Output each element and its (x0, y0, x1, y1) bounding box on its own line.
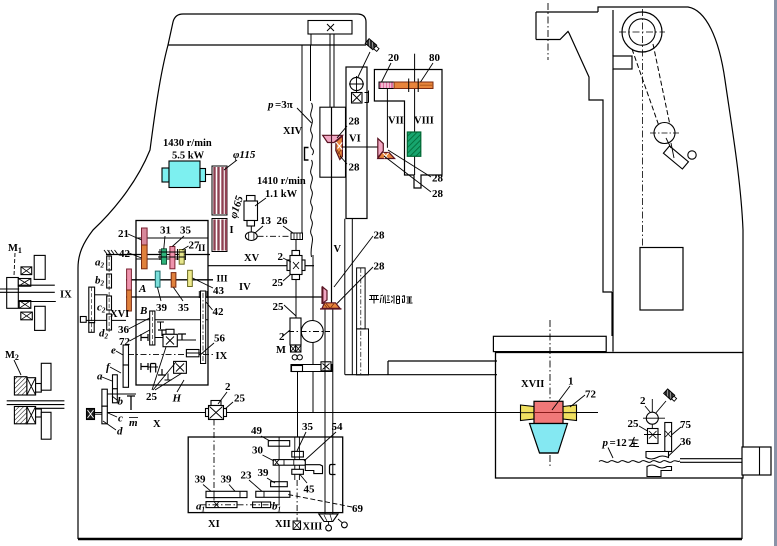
gear 31 green on II (162, 249, 167, 264)
bevel pair VII (378, 139, 395, 159)
gear 26 (291, 233, 303, 240)
svg-text:39: 39 (221, 474, 233, 486)
svg-text:5.5 kW: 5.5 kW (172, 151, 205, 162)
arm 45 to hook (305, 465, 322, 474)
gear B orange on XVI (127, 290, 132, 311)
svg-text:25: 25 (146, 391, 158, 403)
feed select gear bars e f a b c d (102, 345, 129, 424)
XI axis vertical (213, 420, 215, 506)
svg-text:2: 2 (278, 251, 284, 263)
table slide bar right (345, 361, 497, 375)
bevel pair VI (XIV screw drive) (323, 135, 343, 159)
shaft down from clutch to M (295, 280, 297, 319)
svg-text:36: 36 (680, 436, 692, 448)
svg-text:39: 39 (195, 474, 207, 486)
label IX dash line (128, 354, 213, 356)
svg-text:XII: XII (275, 519, 291, 530)
crank handle (662, 143, 697, 170)
svg-text:31: 31 (160, 225, 171, 237)
svg-text:B: B (139, 305, 147, 317)
XI gear bar 39/39 (206, 491, 247, 497)
svg-text:VI: VI (349, 134, 361, 145)
svg-text:XIII: XIII (303, 522, 323, 533)
clutch M2 detail left (14, 363, 51, 439)
svg-text:28: 28 (374, 230, 386, 242)
svg-text:80: 80 (429, 52, 441, 64)
VIII shaft vertical (414, 54, 416, 132)
machine head top band (168, 14, 366, 45)
svg-text:1.1 kW: 1.1 kW (265, 189, 298, 200)
gear A pink on XVI (127, 269, 132, 290)
leaders 28 28 right (388, 150, 431, 177)
svg-text:=12: =12 (610, 437, 628, 449)
a1-b1 dash line (200, 504, 280, 506)
long wavy line (599, 461, 680, 463)
XII shaft verticals (294, 437, 296, 480)
worm wheel red (534, 401, 563, 423)
spindle axis XVII (549, 320, 551, 467)
handwheel circle on slide (349, 76, 369, 103)
svg-text:φ115: φ115 (233, 149, 256, 161)
svg-text:VII: VII (388, 116, 404, 127)
gear 35 bar (292, 451, 304, 457)
rail rect A (345, 219, 353, 375)
svg-text:25: 25 (273, 301, 285, 313)
table long shaft X line (90, 412, 598, 414)
counterweight box (640, 248, 683, 311)
gear 20 pink checkered (379, 82, 394, 89)
screw rod to right (680, 458, 742, 460)
gear 49 bar (268, 441, 289, 447)
small tick symbols near H box bottom (83, 366, 135, 410)
svg-text:XVII: XVII (521, 379, 544, 390)
dash-dot shaft to 26 (258, 235, 292, 237)
head top box (308, 21, 352, 35)
gear 21/42 stack on II (142, 228, 148, 245)
green hatched gear on VIII (407, 132, 421, 156)
clutch M rect and circle (290, 318, 323, 352)
top pulley (622, 12, 662, 52)
svg-text:2: 2 (225, 381, 231, 393)
svg-text:XIV: XIV (283, 126, 303, 137)
pulley belt column phi115/phi165 (212, 166, 227, 252)
shaft II line (118, 254, 210, 256)
right protruding bearing (742, 447, 771, 475)
bevel pair IV-V bottom (320, 287, 342, 309)
svg-text:III: III (217, 275, 228, 285)
gear 35 pink on II (170, 247, 175, 269)
49/30 shaft vertical (278, 437, 280, 504)
vertical slide rect (346, 67, 367, 219)
svg-text:IX: IX (60, 290, 72, 301)
feed box VII/VIII outline (374, 70, 442, 189)
svg-text:XV: XV (244, 253, 260, 264)
tool bit symbol top (365, 39, 380, 53)
svg-text:42: 42 (213, 306, 225, 318)
svg-text:I: I (230, 225, 234, 236)
gear 39 cyan on III (155, 271, 160, 287)
head box x mark (327, 24, 334, 31)
rail rect B (357, 268, 366, 329)
gear 45 bar (292, 469, 304, 474)
m hatch mark near a2 (113, 309, 120, 311)
gear bar 23/39 (256, 491, 290, 497)
wavy body edge with break (311, 45, 314, 257)
gear 35 orange on III (171, 273, 176, 288)
svg-text:b: b (118, 396, 124, 408)
clutch jaws lower (141, 363, 166, 375)
svg-text:28: 28 (349, 116, 361, 128)
svg-text:=3π: =3π (275, 99, 293, 111)
bracket arm with x box (291, 362, 332, 372)
svg-text:X: X (153, 419, 161, 430)
lower hook foot (647, 465, 672, 477)
svg-text:28: 28 (349, 162, 361, 174)
svg-text:21: 21 (118, 228, 129, 240)
shaft IV line (126, 296, 323, 298)
svg-text:28: 28 (374, 261, 386, 273)
svg-text:72: 72 (585, 389, 597, 401)
yellow side blocks (521, 405, 535, 421)
svg-text:75: 75 (680, 419, 692, 431)
svg-text:d: d (117, 426, 123, 438)
joint circles (326, 525, 332, 531)
XIII box with x (293, 521, 300, 529)
svg-text:43: 43 (213, 285, 225, 297)
svg-text:49: 49 (251, 425, 263, 437)
svg-text:M: M (276, 345, 286, 356)
gear 43 yellow on III (188, 270, 193, 286)
svg-text:69: 69 (352, 503, 364, 515)
svg-text:p: p (267, 99, 274, 111)
spindle cone cyan (530, 424, 568, 454)
VII shaft vertical (386, 89, 388, 148)
belt lines to idler (632, 49, 659, 126)
hanging dash line to counterweight (666, 138, 671, 148)
gear 30/54 long bar (273, 460, 305, 466)
VI shaft line (343, 146, 378, 148)
base right verticals (741, 478, 743, 539)
svg-text:V: V (334, 244, 342, 255)
svg-text:28: 28 (432, 188, 444, 200)
lower right worm box (496, 353, 744, 479)
svg-text:42: 42 (119, 248, 131, 260)
svg-text:35: 35 (178, 302, 190, 314)
XVI vertical cluster left (80, 287, 94, 332)
bottom feed box (188, 437, 343, 513)
motor M2 small (feed motor) (244, 196, 258, 227)
svg-text:c: c (118, 413, 123, 425)
gear 42 tall vertical rack (199, 291, 207, 364)
tap circle (646, 412, 658, 424)
shaft III line (126, 279, 213, 281)
svg-text:2: 2 (279, 331, 285, 343)
verticals from bracket to lower box (297, 372, 299, 438)
pivot circles under M (292, 355, 297, 360)
clutch K1 box with x (163, 329, 177, 346)
svg-text:39: 39 (258, 467, 270, 479)
gearbox divider line (136, 319, 208, 321)
gear 13 pinion (245, 232, 257, 241)
rail rect C (357, 329, 369, 375)
wire verticals below head box (311, 34, 334, 107)
svg-text:m: m (129, 417, 138, 429)
svg-text:VIII: VIII (414, 116, 434, 127)
clutch jaws upper (141, 330, 186, 341)
arm axis dash-dot (547, 3, 549, 60)
funnel joint (319, 514, 338, 522)
svg-text:IX: IX (216, 351, 228, 362)
svg-text:39: 39 (156, 302, 168, 314)
svg-text:26: 26 (277, 215, 289, 227)
svg-text:II: II (198, 244, 206, 254)
XIV screw line (331, 107, 333, 303)
svg-text:1: 1 (568, 376, 574, 388)
machine base bottom line (78, 538, 742, 540)
svg-text:a: a (97, 371, 103, 383)
svg-text:IV: IV (239, 282, 251, 293)
svg-text:35: 35 (302, 421, 314, 433)
a1 bar (206, 502, 237, 508)
svg-text:25: 25 (234, 393, 246, 405)
input hatch mark (104, 250, 122, 255)
svg-text:30: 30 (252, 445, 264, 457)
upper hook 36 (646, 452, 669, 460)
XV shaft line (208, 265, 288, 267)
rack bar 75 (665, 423, 672, 452)
svg-text:36: 36 (118, 324, 130, 336)
svg-text:2: 2 (640, 395, 646, 407)
leader from tool to handwheel (358, 52, 371, 78)
svg-text:54: 54 (332, 421, 344, 433)
gear 36/72 tall bar in H box (150, 311, 155, 345)
main gearbox outer box (136, 221, 208, 386)
tap clutch box (648, 429, 659, 444)
C hook (330, 465, 336, 475)
bevel clutch box 2/25 on XV (287, 240, 305, 280)
svg-text:25: 25 (628, 418, 640, 430)
page right border (774, 0, 777, 546)
X shaft bevel box 2/25 (206, 401, 227, 420)
ping heng you gang (balance cylinder) text (369, 295, 413, 304)
svg-text:XI: XI (208, 519, 220, 530)
svg-text:1430 r/min: 1430 r/min (163, 138, 212, 149)
gearbox inner top line (136, 237, 208, 239)
svg-text:XVI: XVI (110, 309, 129, 320)
gear 56 bar (186, 350, 199, 357)
svg-text:20: 20 (388, 52, 400, 64)
svg-text:H: H (172, 393, 182, 405)
gear 27 on II (179, 250, 184, 265)
machine body outline left (78, 45, 366, 539)
tool bit symbol lower (664, 389, 678, 402)
motor M1 main (cyan) (162, 161, 212, 188)
svg-text:A: A (138, 283, 146, 295)
right column outline (493, 7, 743, 353)
bracket on screw (305, 148, 309, 161)
gear column a2-d2 (107, 256, 112, 330)
gear 39-3 bar (271, 482, 288, 487)
svg-text:35: 35 (180, 225, 192, 237)
svg-text:e: e (111, 345, 116, 357)
gear 80 orange bar (394, 82, 433, 89)
clutch K2 box with x (174, 361, 187, 373)
clutch M1 detail left (7, 255, 46, 330)
H box inner shaft lines (148, 322, 201, 380)
b1 bar (253, 502, 271, 508)
svg-text:23: 23 (241, 470, 253, 482)
X shaft left end box (87, 409, 95, 420)
body right edge upper (302, 45, 313, 412)
svg-text:13: 13 (260, 215, 272, 227)
XIV screw housing box (320, 107, 346, 177)
svg-text:p: p (602, 437, 609, 449)
svg-text:45: 45 (304, 484, 316, 496)
idler circle (654, 123, 675, 144)
svg-text:25: 25 (272, 277, 284, 289)
svg-text:56: 56 (214, 333, 226, 345)
shift fork lines on II (158, 251, 186, 253)
svg-text:1410 r/min: 1410 r/min (257, 176, 306, 187)
